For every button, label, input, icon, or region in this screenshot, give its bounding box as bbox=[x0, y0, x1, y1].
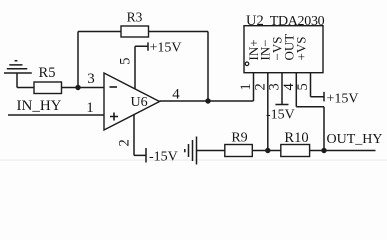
svg-text:TDA2030: TDA2030 bbox=[270, 14, 325, 29]
svg-text:R9: R9 bbox=[231, 131, 247, 146]
svg-text:3: 3 bbox=[87, 71, 95, 87]
svg-text:-15V: -15V bbox=[266, 108, 295, 123]
svg-text:IN_HY: IN_HY bbox=[17, 98, 62, 114]
svg-text:U2: U2 bbox=[246, 13, 264, 29]
svg-text:5: 5 bbox=[295, 83, 311, 90]
svg-text:+15V: +15V bbox=[150, 41, 182, 56]
svg-text:-15V: -15V bbox=[149, 150, 178, 165]
svg-text:2: 2 bbox=[117, 139, 133, 146]
svg-text:R10: R10 bbox=[284, 130, 308, 146]
svg-text:4: 4 bbox=[172, 87, 180, 103]
svg-text:+15V: +15V bbox=[327, 92, 359, 107]
svg-text:R3: R3 bbox=[127, 10, 143, 25]
svg-text:+VS: +VS bbox=[293, 37, 308, 61]
svg-text:OUT_HY: OUT_HY bbox=[327, 132, 383, 147]
svg-text:U6: U6 bbox=[131, 95, 148, 110]
svg-text:R5: R5 bbox=[39, 65, 56, 81]
svg-text:5: 5 bbox=[118, 58, 134, 65]
svg-text:1: 1 bbox=[86, 100, 94, 116]
